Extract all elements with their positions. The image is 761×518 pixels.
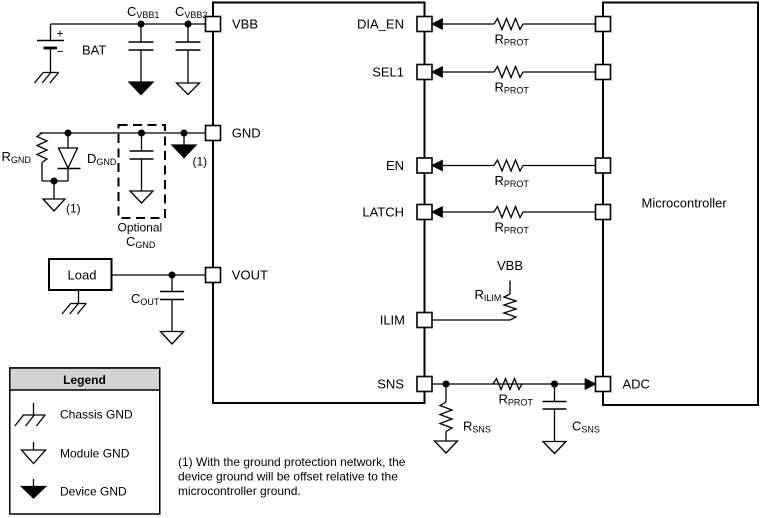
MCU pin (EN) xyxy=(596,158,611,173)
svg-text:EN: EN xyxy=(386,158,404,173)
svg-text:RPROT: RPROT xyxy=(495,220,530,236)
arrow into EN xyxy=(432,161,442,171)
svg-text:CGND: CGND xyxy=(126,234,156,250)
svg-text:VOUT: VOUT xyxy=(232,267,268,282)
resistor RSNS xyxy=(445,384,447,402)
resistor RGND xyxy=(37,133,47,163)
pin ILIM xyxy=(417,313,432,328)
wire DIA_EN row right xyxy=(523,23,596,25)
svg-text:COUT: COUT xyxy=(131,291,160,307)
wire DIA_EN row xyxy=(441,23,494,25)
svg-text:Device GND: Device GND xyxy=(60,485,127,499)
wire VOUT y=275 xyxy=(112,274,206,276)
svg-text:RGND: RGND xyxy=(2,149,32,165)
resistor RPROT (DIA_EN) xyxy=(494,19,523,30)
svg-text:RPROT: RPROT xyxy=(499,391,534,407)
svg-text:CSNS: CSNS xyxy=(572,419,600,435)
module ground (legend) xyxy=(33,442,35,450)
svg-text:Load: Load xyxy=(68,268,97,283)
arrow into SEL1 xyxy=(432,67,442,77)
svg-text:(1): (1) xyxy=(66,202,81,216)
svg-text:DGND: DGND xyxy=(87,151,117,167)
capacitor CVBB1 xyxy=(138,21,144,27)
resistor RPROT (LATCH) xyxy=(494,207,523,218)
svg-text:CVBB1: CVBB1 xyxy=(127,4,159,20)
pin DIA_EN xyxy=(417,17,432,32)
wire EN row xyxy=(441,165,494,167)
module ground (CVBB2) xyxy=(177,83,200,95)
node RGND/DGND junction xyxy=(51,178,57,184)
IC block (main device) xyxy=(213,3,425,404)
device ground (CVBB1) xyxy=(129,82,153,95)
optional CGND dashed box xyxy=(119,125,166,218)
wire GND rail y=133 xyxy=(40,132,206,134)
chassis ground (Load) xyxy=(78,290,80,304)
svg-text:Chassis GND: Chassis GND xyxy=(60,408,133,422)
svg-text:RPROT: RPROT xyxy=(495,80,530,96)
capacitor COUT xyxy=(169,272,175,278)
svg-text:LATCH: LATCH xyxy=(362,204,404,219)
wire ILIM row xyxy=(432,319,510,321)
svg-text:ILIM: ILIM xyxy=(380,312,405,327)
MCU pin (SEL1) xyxy=(596,65,611,80)
svg-text:+: + xyxy=(57,27,64,41)
svg-text:microcontroller ground.: microcontroller ground. xyxy=(178,484,301,498)
arrow into DIA_EN xyxy=(432,19,442,29)
wire SEL1 row xyxy=(441,71,494,73)
device ground (1) at GND pin xyxy=(181,130,187,136)
capacitor CSNS xyxy=(554,384,556,402)
pin SNS xyxy=(417,377,432,392)
resistor RILIM xyxy=(504,294,516,320)
svg-text:SNS: SNS xyxy=(377,376,404,391)
svg-text:Legend: Legend xyxy=(63,373,106,387)
resistor RPROT (EN) xyxy=(494,160,523,171)
svg-text:−: − xyxy=(57,45,64,59)
svg-text:RSNS: RSNS xyxy=(463,419,491,435)
Load block xyxy=(49,259,112,290)
capacitor CGND xyxy=(139,130,145,136)
arrow into ADC xyxy=(585,379,595,389)
pin EN xyxy=(417,158,432,173)
svg-text:DIA_EN: DIA_EN xyxy=(357,16,404,31)
module ground (CSNS) xyxy=(543,442,566,454)
resistor RPROT (SNS) xyxy=(493,379,522,390)
diode DGND xyxy=(65,130,71,136)
device ground (legend) xyxy=(33,479,35,487)
svg-text:Module GND: Module GND xyxy=(60,447,130,461)
wire RGND/DGND bottom y=181 xyxy=(42,180,68,182)
svg-text:(1): (1) xyxy=(193,155,208,169)
resistor RPROT (SEL1) xyxy=(494,67,523,78)
svg-text:VBB: VBB xyxy=(497,258,523,273)
arrow into LATCH xyxy=(432,207,442,217)
svg-text:Optional: Optional xyxy=(118,221,163,235)
svg-text:(1) With the ground protection: (1) With the ground protection network, … xyxy=(178,455,406,469)
pin LATCH xyxy=(417,205,432,220)
svg-text:RPROT: RPROT xyxy=(495,173,530,189)
pin VBB xyxy=(206,17,221,32)
svg-text:ADC: ADC xyxy=(623,376,650,391)
chassis ground (legend) xyxy=(33,403,35,415)
module ground (RSNS) xyxy=(435,441,458,453)
svg-text:RPROT: RPROT xyxy=(495,32,530,48)
svg-text:GND: GND xyxy=(232,125,261,140)
wire LATCH row right xyxy=(523,211,596,213)
svg-text:BAT: BAT xyxy=(82,43,106,58)
svg-text:device ground will be offset r: device ground will be offset relative to… xyxy=(178,470,398,484)
battery BAT xyxy=(50,24,52,40)
module ground (CGND) xyxy=(130,191,153,203)
node SNS junction xyxy=(443,381,449,387)
Microcontroller block xyxy=(603,3,758,406)
svg-text:SEL1: SEL1 xyxy=(372,64,404,79)
chassis ground (battery) xyxy=(43,72,59,74)
Legend box xyxy=(10,368,160,514)
wire SEL1 row right xyxy=(523,71,596,73)
capacitor CVBB2 xyxy=(185,21,191,27)
MCU pin (LATCH) xyxy=(596,205,611,220)
wire VBB rail y=24 xyxy=(51,23,206,25)
node CSNS junction xyxy=(552,381,558,387)
wire EN row right xyxy=(523,165,596,167)
svg-text:CVBB2: CVBB2 xyxy=(175,4,207,20)
svg-text:Microcontroller: Microcontroller xyxy=(642,196,728,211)
wire VBB to RILIM xyxy=(509,281,511,295)
module ground (COUT) xyxy=(161,332,184,345)
MCU pin ADC xyxy=(596,377,611,392)
module ground (1) bottom-left xyxy=(43,199,65,211)
MCU pin (DIA_EN) xyxy=(596,17,611,32)
wire LATCH row xyxy=(441,211,494,213)
svg-text:RILIM: RILIM xyxy=(475,287,502,303)
pin VOUT xyxy=(206,268,221,283)
pin SEL1 xyxy=(417,65,432,80)
svg-text:VBB: VBB xyxy=(232,16,258,31)
wire SNS row xyxy=(432,383,586,385)
pin GND xyxy=(206,126,221,141)
